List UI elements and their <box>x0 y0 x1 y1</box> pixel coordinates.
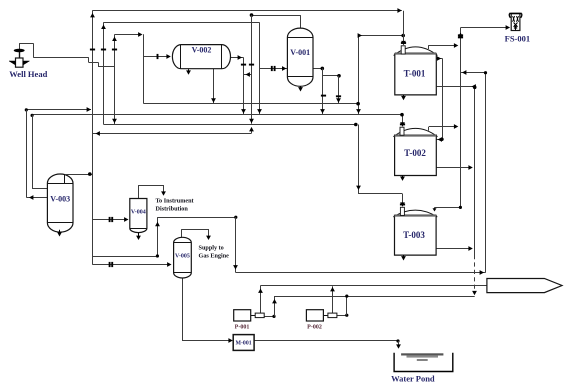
svg-text:Distribution: Distribution <box>156 206 189 213</box>
svg-text:P-001: P-001 <box>235 325 250 331</box>
svg-text:T-003: T-003 <box>403 230 425 240</box>
svg-text:M-001: M-001 <box>236 341 252 347</box>
svg-text:Well Head: Well Head <box>9 69 47 79</box>
svg-text:V-005: V-005 <box>175 254 190 260</box>
svg-text:Supply to: Supply to <box>199 245 224 252</box>
svg-text:T-002: T-002 <box>404 148 426 158</box>
svg-text:T-001: T-001 <box>404 68 426 78</box>
svg-text:P-002: P-002 <box>307 325 322 331</box>
svg-text:V-002: V-002 <box>192 46 212 55</box>
svg-text:V-003: V-003 <box>50 195 70 204</box>
svg-text:FS-001: FS-001 <box>505 34 531 44</box>
svg-text:V-001: V-001 <box>290 48 310 57</box>
svg-text:Gas Engine: Gas Engine <box>199 253 230 260</box>
svg-text:V-004: V-004 <box>131 210 146 216</box>
svg-text:To Instrument: To Instrument <box>156 198 195 205</box>
svg-text:Water Pond: Water Pond <box>391 374 435 384</box>
